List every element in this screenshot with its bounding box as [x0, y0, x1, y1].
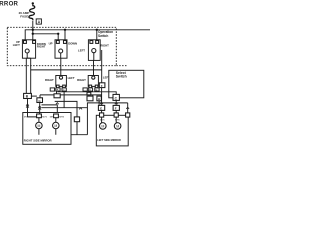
- connector cA0: [50, 88, 54, 91]
- connector box x77: [74, 117, 79, 122]
- svg-text:RIGHT: RIGHT: [37, 45, 46, 49]
- wire pin to motor2: [55, 118, 57, 123]
- svg-text:MVS: MVS: [42, 116, 47, 118]
- svg-text:MHS: MHS: [59, 116, 64, 118]
- wire F harness: [40, 95, 102, 98]
- wire to SW1 right pin: [32, 34, 34, 42]
- connector cB2: [95, 88, 99, 91]
- svg-text:E: E: [100, 107, 102, 111]
- svg-text:MIRROR: MIRROR: [0, 1, 19, 8]
- chevron L2: [56, 103, 59, 105]
- svg-text:FUSE: FUSE: [20, 15, 28, 19]
- inline connector chevrons K2 wire: [38, 106, 41, 110]
- dashed bottom extension: [116, 65, 127, 67]
- pin box mirror entry 1: [100, 113, 104, 117]
- svg-text:MH: MH: [50, 116, 54, 118]
- connector K1: [24, 93, 32, 98]
- svg-text:MV: MV: [24, 116, 28, 118]
- svg-text:F: F: [101, 84, 103, 88]
- switch SW1 up/down rocker: [22, 40, 35, 58]
- connector P1: [99, 83, 105, 88]
- wire P1 down: [101, 88, 103, 107]
- select switch pole A: [56, 76, 67, 87]
- connector K4: [113, 94, 119, 100]
- wire cA2 down to L3: [63, 91, 65, 108]
- junction dot bus1 fuse: [32, 29, 34, 31]
- svg-text:F: F: [115, 107, 117, 111]
- svg-text:UP: UP: [49, 41, 53, 45]
- wire drop SW2 right: [64, 30, 66, 42]
- svg-text:M: M: [116, 124, 119, 128]
- chevron P1 wire: [100, 103, 103, 105]
- connector K3: [97, 96, 101, 101]
- wire E harness: [58, 91, 116, 94]
- svg-text:LEFT SIDE MIRROR: LEFT SIDE MIRROR: [97, 139, 121, 142]
- junction dot SW2 right drop: [64, 29, 66, 31]
- wire K1 to mirror: [27, 99, 29, 113]
- connector LB2: [113, 105, 119, 110]
- pin box mirror entry 2: [114, 113, 118, 117]
- svg-text:Switch: Switch: [98, 34, 108, 38]
- svg-text:LEFT: LEFT: [68, 76, 75, 80]
- pin box motor2: [54, 114, 59, 118]
- entry stubs: [28, 113, 40, 117]
- select switch label box: [109, 70, 144, 98]
- switch SW2 rocker: [55, 40, 67, 58]
- connector cA2: [62, 88, 66, 91]
- select switch pole B: [88, 76, 98, 87]
- wire K4 down: [115, 100, 117, 106]
- motor M2: [53, 122, 60, 129]
- svg-text:RIGHT: RIGHT: [77, 78, 86, 82]
- bus1 wire: [25, 30, 150, 42]
- junction dot SW3 right drop: [96, 29, 98, 31]
- wire fuse to bus: [32, 21, 34, 34]
- fuse F1 20 AMP squiggle: [29, 6, 35, 20]
- svg-text:RIGHT SIDE MIRROR: RIGHT SIDE MIRROR: [24, 138, 52, 142]
- wire K2 to mirror: [39, 103, 41, 115]
- svg-text:M: M: [101, 124, 104, 128]
- svg-text:MHS: MHS: [115, 119, 120, 121]
- stub F line to GR box: [92, 95, 94, 96]
- wire K3 to LB1: [98, 101, 100, 106]
- svg-text:LEFT: LEFT: [13, 43, 20, 47]
- svg-text:LEFT: LEFT: [78, 48, 85, 52]
- harness line L3: [42, 107, 88, 109]
- wire cA1 down to straddle box: [56, 91, 58, 94]
- connector cB0: [83, 88, 87, 91]
- chevron on L3: [79, 108, 82, 110]
- motor M4: [114, 123, 121, 130]
- harness H wire: [87, 103, 127, 135]
- left side mirror box: [96, 115, 128, 146]
- box GR: [87, 96, 93, 101]
- wire drop SW3 right: [96, 30, 98, 42]
- pin box mirror entry 3: [126, 113, 130, 117]
- harness line G to x77 column: [55, 101, 77, 117]
- wire pin to motor1: [38, 118, 40, 123]
- wire SW3 to select box B: [93, 60, 95, 76]
- connector box A on fuse wire: [36, 19, 41, 24]
- motor M3: [100, 123, 107, 130]
- connector cA1: [56, 88, 60, 91]
- svg-text:Switch: Switch: [116, 75, 127, 79]
- svg-text:D: D: [89, 88, 91, 92]
- svg-text:RIGHT: RIGHT: [45, 78, 54, 82]
- bus3 return wire: [31, 50, 102, 83]
- K1 link to K2: [31, 95, 37, 97]
- pin box motor1: [37, 114, 42, 118]
- inline connector chevrons K1 wire: [26, 104, 29, 108]
- dashed box mirror switch assembly: [7, 27, 116, 65]
- wire SW1 to connector K1: [26, 58, 30, 93]
- entry wires left mirror: [102, 110, 117, 122]
- right side mirror box: [23, 113, 71, 145]
- switch SW3 rocker: [88, 40, 100, 61]
- junction dot bus2 right: [57, 33, 59, 35]
- connector cB1: [88, 88, 92, 91]
- motor M1: [36, 122, 43, 129]
- chevron K4 wire: [115, 103, 118, 105]
- svg-text:RIGHT: RIGHT: [100, 44, 109, 48]
- wire cB1 down: [88, 91, 90, 96]
- svg-text:H: H: [98, 97, 100, 101]
- wire SW2 to select box A: [60, 58, 62, 76]
- connector LB1: [98, 105, 104, 110]
- svg-text:MVS: MVS: [100, 119, 105, 121]
- svg-text:M: M: [38, 124, 41, 128]
- straddle box GL on F line: [54, 94, 60, 98]
- motor return stubs: [39, 129, 56, 135]
- junction dot bus2 left: [32, 33, 34, 35]
- battery feed dot: [32, 2, 34, 4]
- harness line L2 to pin2: [42, 105, 58, 114]
- connector K2: [37, 98, 43, 103]
- chevron third column: [126, 107, 129, 109]
- bus2 wire: [33, 34, 58, 42]
- svg-text:E: E: [96, 88, 98, 92]
- wire feed to fuse: [32, 3, 34, 5]
- mirror return wire: [39, 134, 88, 136]
- svg-text:DOWN: DOWN: [68, 41, 77, 45]
- svg-text:M: M: [54, 124, 57, 128]
